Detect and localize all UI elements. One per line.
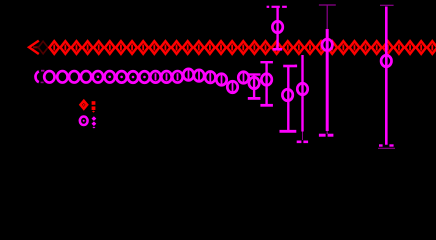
red data point D25 : open diamond marker with tiny error tick — [316, 41, 326, 54]
magenta data point M3 : open circle marker — [81, 71, 91, 83]
magenta data point M8 : open circle marker — [139, 71, 149, 83]
error bar of M24 : thin dim upper part, bright core, dashed bottom cap — [319, 5, 336, 135]
magenta data point M4 : open circle marker — [93, 71, 103, 83]
error bar of M22 with caps — [280, 66, 298, 131]
magenta data point M21 : circle marker high at (277.6,27) — [272, 21, 282, 33]
magenta data point M23 : circle marker at (302.5,89) — [297, 83, 307, 95]
magenta data point M14 : open circle marker — [205, 71, 215, 83]
magenta data point M20 : circle marker at (266.6,79.5) — [261, 74, 271, 86]
legend: red series marker (small diamond) — [81, 101, 88, 109]
red data point D31 : open diamond marker with tiny error tick — [383, 41, 393, 54]
legend: magenta series dashed error-bar sample — [92, 116, 97, 128]
magenta data point M9 : open circle marker — [150, 71, 160, 83]
red data point D8 : open diamond marker with tiny error tick — [127, 41, 137, 54]
legend: red series dashed error-bar sample — [92, 101, 96, 112]
red data point D5 : open diamond marker with tiny error tick — [94, 41, 104, 54]
red data point D17 : open diamond marker with tiny error tick — [227, 41, 237, 54]
red data point D9 : open diamond marker with tiny error tick — [138, 41, 148, 54]
red data point D1 : open diamond marker with tiny error tick — [49, 41, 59, 54]
red data point D28 : open diamond marker with tiny error tick — [350, 41, 360, 54]
magenta data point M0 : open circle marker — [44, 71, 54, 83]
error bar of M21 : dashed top cap, solid bottom cap — [267, 7, 287, 50]
magenta data point M12 : open circle marker — [183, 69, 193, 81]
red data point D6 : open diamond marker with tiny error tick — [105, 41, 115, 54]
red data point D32 : open diamond marker with tiny error tick — [394, 41, 404, 54]
red data point D14 : open diamond marker with tiny error tick — [194, 41, 204, 54]
magenta data point M11 : open circle marker — [172, 71, 182, 83]
red data point D12 : open diamond marker with tiny error tick — [172, 41, 182, 54]
red data point D10 : open diamond marker with tiny error tick — [149, 41, 159, 54]
red data point D16 : open diamond marker with tiny error tick — [216, 41, 226, 54]
red data point D29 : open diamond marker with tiny error tick — [361, 41, 371, 54]
red data point D4 : open diamond marker with tiny error tick — [83, 41, 93, 54]
error bar of M25 : tall bar, thin dim caps with bright dashes — [378, 5, 395, 148]
magenta data point M7 : open circle marker — [128, 71, 138, 83]
magenta data point M6 : open circle marker — [116, 71, 126, 83]
red data point D26 : open diamond marker with tiny error tick — [327, 41, 337, 54]
red data point D23 : open diamond marker with tiny error tick — [294, 41, 304, 54]
magenta data point M17 : open circle marker with small error bar — [238, 71, 248, 85]
red series: left off-scale limit arrow — [29, 41, 39, 54]
magenta data point M25 : circle marker at (386.3,61) — [381, 55, 391, 67]
magenta data point M2 : open circle marker — [69, 71, 79, 83]
magenta data point M5 : open circle marker — [105, 71, 115, 83]
magenta data point M10 : open circle marker — [161, 71, 171, 83]
red data point D27 : open diamond marker with tiny error tick — [338, 41, 348, 54]
error bar of M19 with caps — [248, 75, 261, 99]
red data point D13 : open diamond marker with tiny error tick — [183, 41, 193, 54]
red series: dim shaft speckles of off-scale arrow — [33, 46, 44, 48]
magenta data point M1 : open circle marker — [57, 71, 67, 83]
red data point D33 : open diamond marker with tiny error tick — [405, 41, 415, 54]
red data point D18 : open diamond marker with tiny error tick — [238, 41, 248, 54]
magenta data point M19 : circle marker at (254,83) — [249, 77, 259, 89]
red data point D11 : open diamond marker with tiny error tick — [161, 41, 171, 54]
red data point D20 : open diamond marker with tiny error tick — [261, 41, 271, 54]
red data point D24 : open diamond marker with tiny error tick — [305, 41, 315, 54]
magenta data point M15 : open circle marker with small error bar — [216, 73, 226, 87]
magenta data point M16 : open circle marker with small error bar — [227, 80, 237, 94]
red data point D3 : open diamond marker with tiny error tick — [72, 41, 82, 54]
error bar of M23 : long bar, dashed bottom cap — [295, 55, 308, 142]
red data point D15 : open diamond marker with tiny error tick — [205, 41, 215, 54]
error bar of M20 with caps — [260, 62, 273, 105]
magenta data point M-1 : leftmost clipped circle marker (left arc only) — [35, 70, 44, 83]
red data point D0 : dim partially-hidden diamond — [38, 41, 48, 54]
red data point D2 : open diamond marker with tiny error tick — [60, 41, 70, 54]
red data point D30 : open diamond marker with tiny error tick — [372, 41, 382, 54]
magenta data point M22 : circle marker at (287.6,95) — [282, 89, 292, 101]
red data point D22 : open diamond marker with tiny error tick — [283, 41, 293, 54]
red data point D7 : open diamond marker with tiny error tick — [116, 41, 126, 54]
red data point D35 : open diamond marker with tiny error tick — [427, 41, 436, 54]
red data point D34 : open diamond marker with tiny error tick — [416, 41, 426, 54]
legend: magenta series marker (small circle) — [80, 117, 88, 126]
red data point D19 : open diamond marker with tiny error tick — [249, 41, 259, 54]
magenta data point M24 : circle marker on red row at (327.2,44.8) — [322, 39, 332, 51]
red data point D21 : open diamond marker with tiny error tick — [272, 41, 282, 54]
magenta data point M13 : open circle marker — [194, 70, 204, 82]
